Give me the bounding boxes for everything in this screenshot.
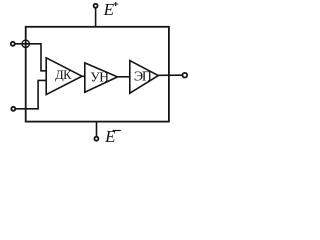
terminal E+ bbox=[94, 4, 98, 8]
amplifier stage DK (differential cascade) bbox=[46, 58, 82, 95]
svg-text:E: E bbox=[104, 127, 116, 145]
wire EP output through right edge to output terminal bbox=[158, 74, 182, 76]
svg-text:ДК: ДК bbox=[55, 68, 72, 82]
op-amp body rectangle bbox=[26, 27, 169, 122]
svg-text:E: E bbox=[103, 0, 115, 19]
wire DK output to UN input bbox=[82, 75, 85, 77]
svg-text:ЭП: ЭП bbox=[134, 69, 152, 84]
wire input 2 to DK stage input bbox=[15, 80, 46, 108]
amplifier stage UN (voltage amplifier) bbox=[85, 63, 118, 92]
amplifier stage EP (emitter follower) bbox=[130, 61, 159, 94]
svg-text:УН: УН bbox=[90, 69, 109, 84]
label E+ bbox=[103, 0, 118, 19]
input terminal 1 (non-inverting) bbox=[11, 42, 15, 46]
label E- bbox=[104, 127, 121, 146]
wire E+ to body top edge bbox=[95, 8, 97, 27]
output terminal bbox=[183, 73, 188, 78]
wire E- to body bottom edge bbox=[96, 122, 98, 137]
crossed-circle entry node on left edge bbox=[22, 40, 29, 47]
wire input 1 to DK stage input bbox=[15, 44, 46, 71]
input terminal 2 (inverting) bbox=[11, 107, 15, 111]
terminal E- bbox=[94, 137, 98, 141]
wire UN output to EP input bbox=[118, 76, 130, 78]
